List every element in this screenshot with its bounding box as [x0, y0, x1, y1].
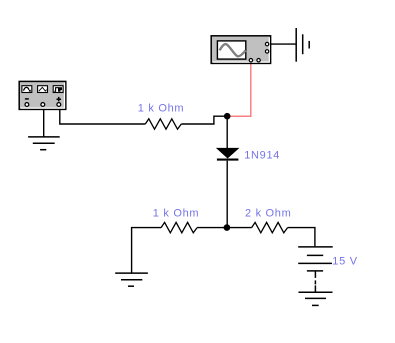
wire: generator COM to ground — [43, 110, 45, 137]
wire: generator + output to R1 — [60, 110, 146, 124]
svg-text:1 k Ohm: 1 k Ohm — [138, 103, 184, 115]
ground (left, bottom) — [115, 273, 148, 286]
wire: battery to ground lead — [314, 285, 316, 292]
wire: left riser to R2 — [132, 228, 162, 273]
resistor R1 1 k Ohm — [145, 119, 181, 129]
oscilloscope XSC1 — [211, 36, 270, 64]
resistor R2 1 k Ohm — [161, 222, 197, 232]
svg-text:1N914: 1N914 — [244, 150, 280, 162]
svg-text:2 k Ohm: 2 k Ohm — [245, 208, 291, 220]
ground (battery) — [299, 292, 333, 305]
wire: node A to diode — [226, 119, 228, 149]
wire: red, scope channel to node A — [228, 63, 251, 116]
diode D1 1N914 — [217, 148, 239, 159]
wire: R3 to battery — [288, 228, 315, 247]
svg-text:1 k Ohm: 1 k Ohm — [153, 208, 199, 220]
resistor R3 2 k Ohm — [252, 222, 288, 232]
ground (scope, rotated) — [296, 28, 309, 62]
wire: R1 to node A — [181, 116, 227, 124]
wire: diode to node B — [226, 161, 228, 226]
node B junction dot — [224, 224, 231, 231]
battery V1 15 V — [298, 247, 333, 285]
wire: R2 to node B — [197, 227, 227, 229]
ground (function generator) — [28, 137, 60, 150]
svg-text:15 V: 15 V — [332, 256, 357, 268]
wire: node B to R3 — [227, 227, 252, 229]
node A junction dot — [224, 113, 231, 120]
function generator XFG1 — [19, 81, 66, 109]
wire: scope ground terminal to ground — [271, 43, 296, 45]
